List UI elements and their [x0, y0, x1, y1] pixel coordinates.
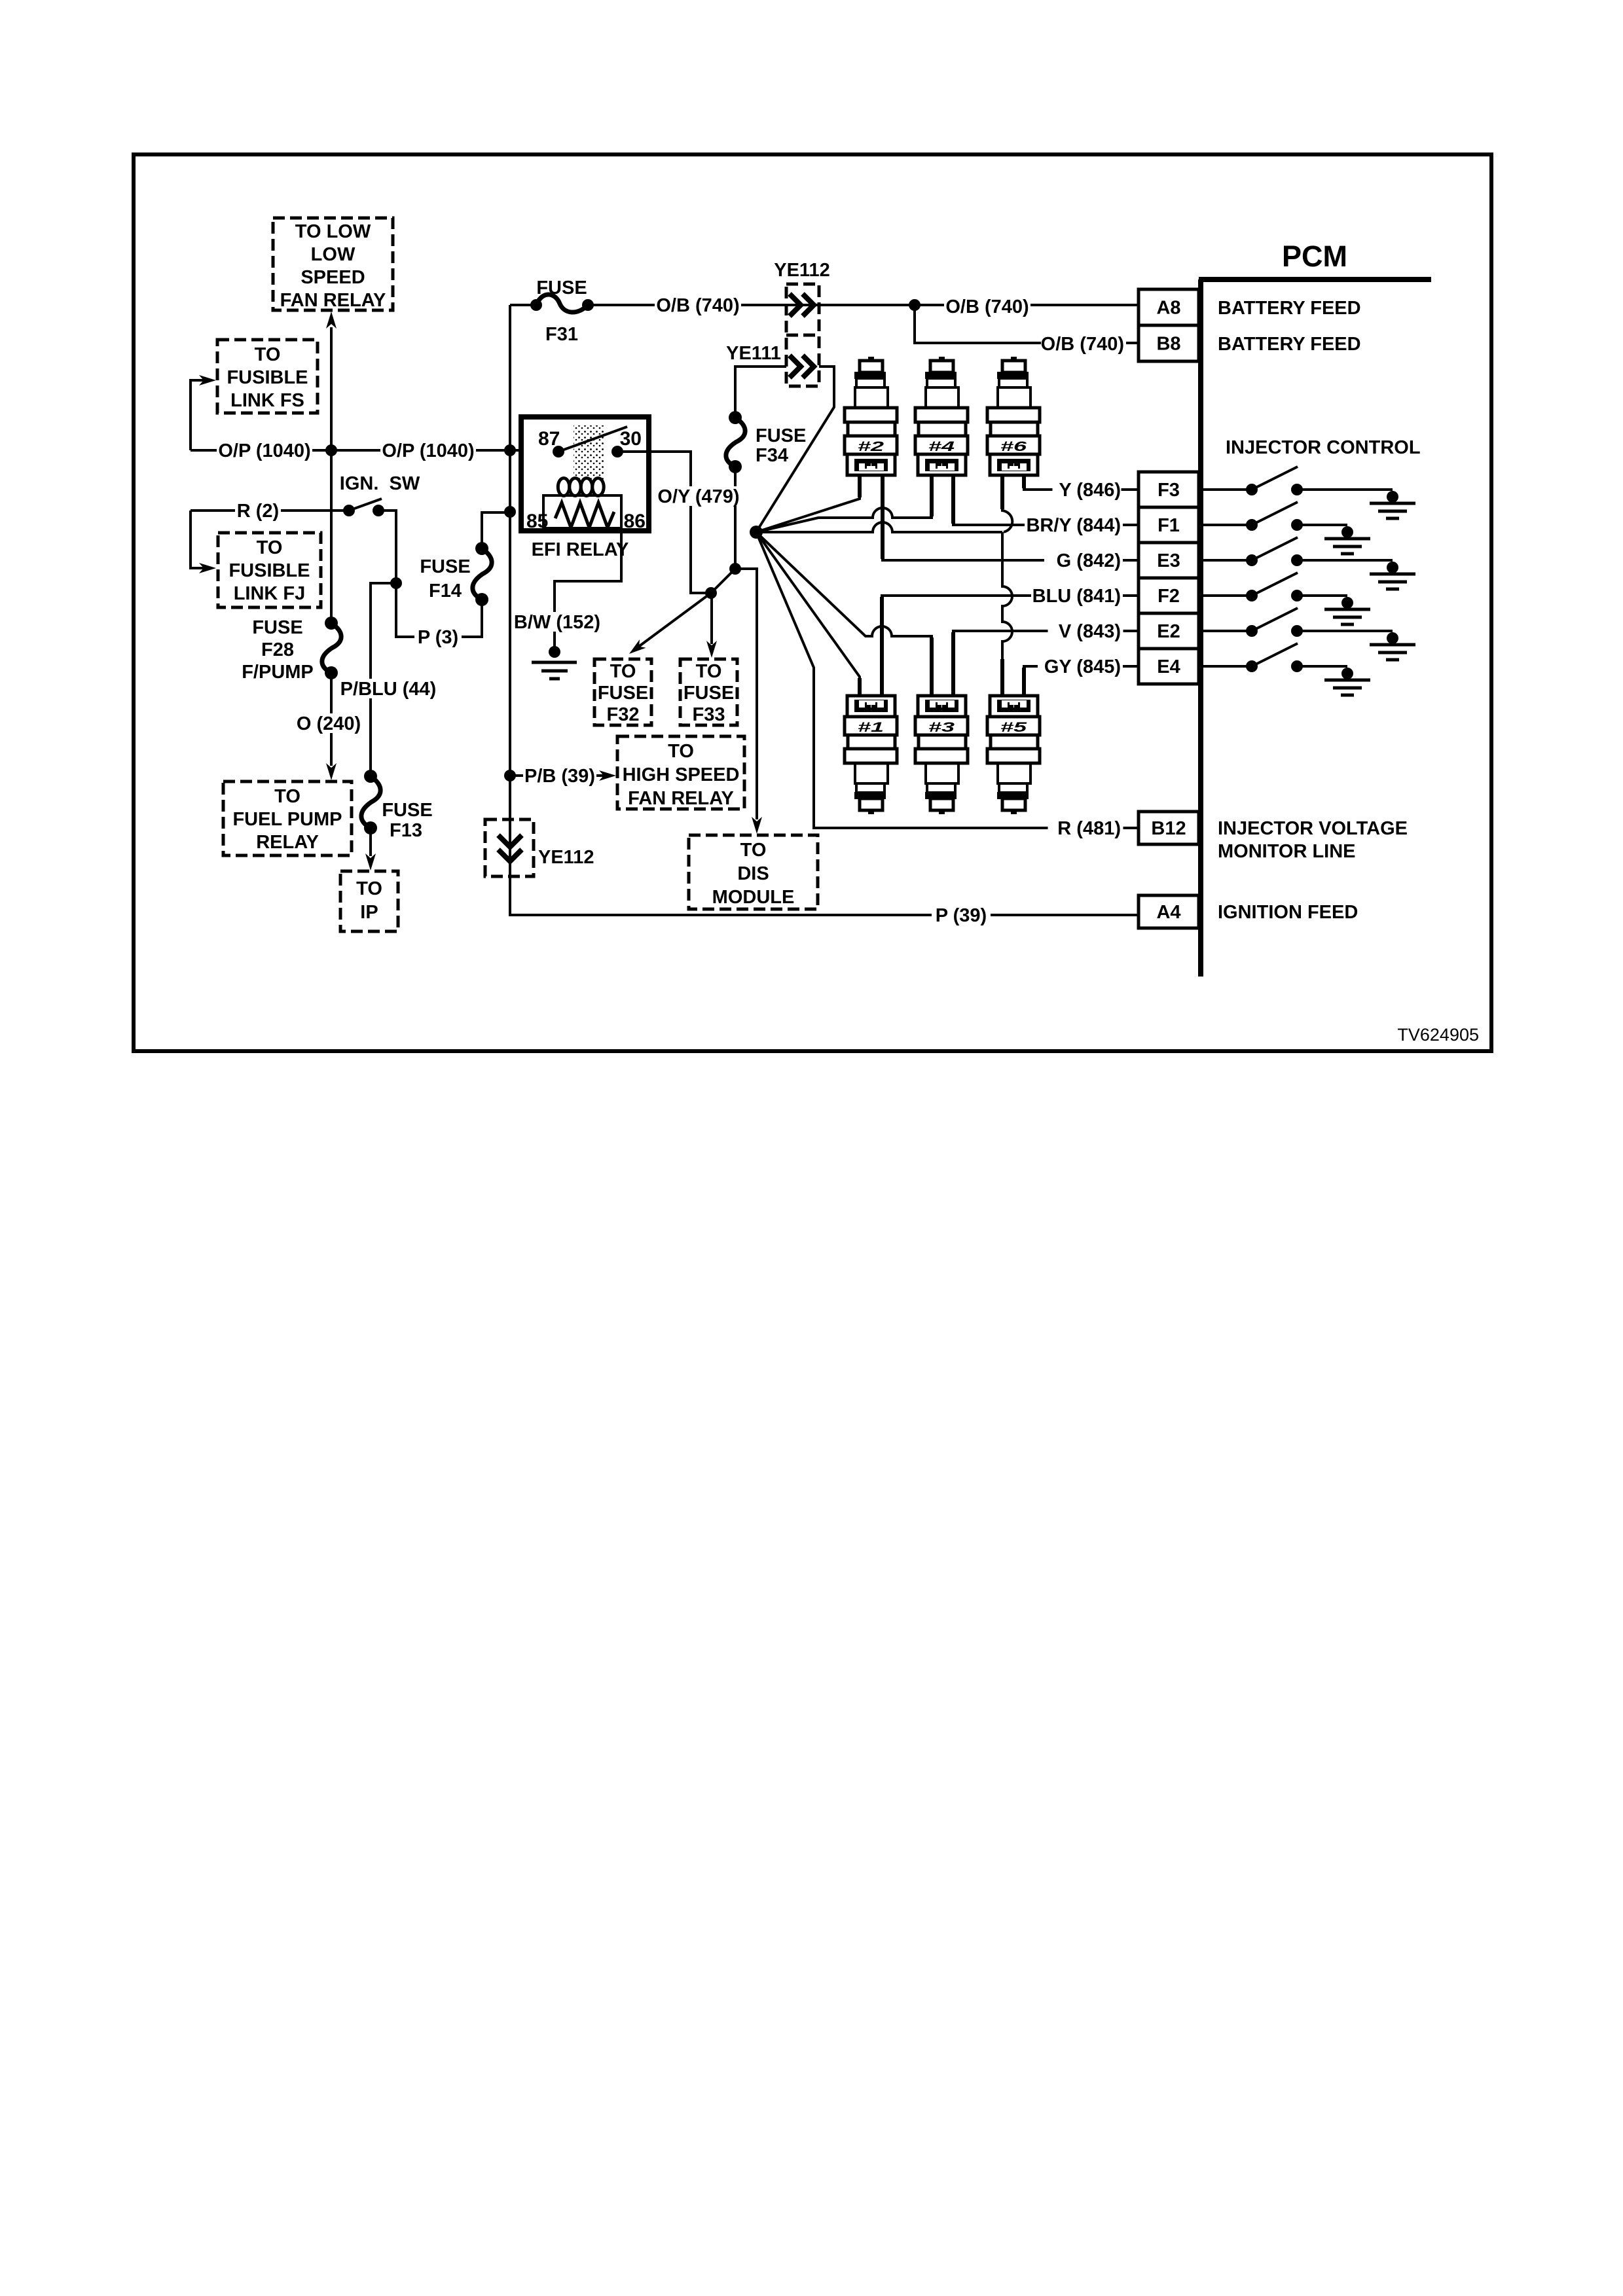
svg-text:87: 87 — [538, 428, 560, 450]
svg-text:F31: F31 — [545, 324, 578, 345]
svg-text:TO: TO — [610, 661, 636, 682]
svg-text:#2: #2 — [858, 439, 884, 454]
svg-text:#1: #1 — [858, 720, 884, 735]
svg-text:85: 85 — [526, 511, 548, 532]
svg-text:YE112: YE112 — [538, 847, 594, 868]
svg-text:B12: B12 — [1151, 818, 1186, 839]
svg-text:TO: TO — [696, 661, 722, 682]
svg-text:E2: E2 — [1157, 621, 1180, 642]
svg-text:MONITOR LINE: MONITOR LINE — [1218, 841, 1356, 862]
svg-text:LINK FS: LINK FS — [230, 390, 304, 411]
svg-text:HIGH SPEED: HIGH SPEED — [623, 764, 740, 785]
svg-text:FUSE: FUSE — [598, 683, 648, 704]
svg-text:FAN RELAY: FAN RELAY — [280, 290, 386, 311]
svg-text:IGN. SW: IGN. SW — [340, 473, 420, 494]
svg-text:G (842): G (842) — [1057, 550, 1121, 571]
svg-text:IP: IP — [360, 902, 378, 923]
svg-text:V (843): V (843) — [1059, 621, 1121, 642]
svg-text:FUSE: FUSE — [756, 425, 806, 446]
svg-text:E3: E3 — [1157, 550, 1180, 571]
svg-text:INJECTOR CONTROL: INJECTOR CONTROL — [1226, 437, 1421, 458]
svg-text:FUSE: FUSE — [536, 278, 587, 298]
svg-text:TO: TO — [668, 741, 694, 762]
svg-text:F33: F33 — [693, 704, 725, 725]
svg-text:SPEED: SPEED — [301, 267, 365, 288]
svg-text:FUSE: FUSE — [382, 800, 432, 821]
svg-text:YE111: YE111 — [726, 343, 781, 364]
svg-text:O/B (740): O/B (740) — [1041, 334, 1124, 355]
svg-text:R (481): R (481) — [1057, 818, 1121, 839]
svg-text:P/BLU (44): P/BLU (44) — [340, 679, 437, 700]
svg-text:YE112: YE112 — [774, 260, 830, 281]
svg-text:#5: #5 — [1000, 720, 1027, 735]
svg-text:FUSE: FUSE — [684, 683, 734, 704]
svg-text:P (3): P (3) — [418, 627, 458, 648]
svg-text:LINK FJ: LINK FJ — [234, 583, 306, 604]
svg-text:TO: TO — [740, 840, 767, 861]
svg-text:F14: F14 — [429, 581, 462, 601]
svg-text:F28: F28 — [261, 639, 294, 660]
svg-text:86: 86 — [624, 511, 646, 532]
svg-text:TO: TO — [255, 344, 281, 365]
svg-text:BR/Y (844): BR/Y (844) — [1026, 515, 1121, 536]
svg-text:R (2): R (2) — [237, 501, 279, 522]
svg-text:30: 30 — [620, 428, 642, 450]
svg-text:BATTERY FEED: BATTERY FEED — [1218, 334, 1361, 355]
svg-text:BLU (841): BLU (841) — [1032, 586, 1121, 607]
svg-text:A8: A8 — [1156, 298, 1180, 319]
svg-text:O/B (740): O/B (740) — [945, 296, 1029, 317]
svg-text:F3: F3 — [1158, 480, 1180, 501]
svg-text:F2: F2 — [1158, 586, 1180, 607]
svg-text:FUSIBLE: FUSIBLE — [228, 560, 310, 581]
svg-text:O/Y (479): O/Y (479) — [657, 486, 739, 507]
svg-text:Y (846): Y (846) — [1059, 480, 1121, 501]
svg-text:TO LOW: TO LOW — [295, 221, 371, 242]
svg-text:FUSIBLE: FUSIBLE — [227, 367, 308, 388]
svg-text:TO: TO — [257, 537, 283, 558]
svg-text:DIS: DIS — [737, 863, 769, 884]
svg-text:#3: #3 — [928, 720, 955, 735]
svg-text:BATTERY FEED: BATTERY FEED — [1218, 298, 1361, 319]
svg-text:P/B (39): P/B (39) — [524, 766, 595, 787]
svg-text:P (39): P (39) — [936, 905, 987, 926]
svg-text:TO: TO — [356, 878, 382, 899]
svg-text:FUSE: FUSE — [420, 556, 470, 577]
svg-text:F34: F34 — [756, 445, 788, 466]
svg-text:B8: B8 — [1156, 334, 1180, 355]
svg-text:PCM: PCM — [1282, 240, 1347, 273]
svg-text:A4: A4 — [1156, 902, 1180, 923]
svg-text:EFI RELAY: EFI RELAY — [532, 539, 629, 560]
svg-text:O (240): O (240) — [297, 713, 361, 734]
svg-text:GY (845): GY (845) — [1044, 656, 1121, 677]
svg-text:F32: F32 — [607, 704, 640, 725]
svg-text:F1: F1 — [1158, 515, 1180, 536]
svg-text:O/P (1040): O/P (1040) — [218, 440, 310, 461]
svg-text:F13: F13 — [390, 820, 422, 841]
svg-text:F/PUMP: F/PUMP — [242, 662, 314, 683]
svg-text:FAN RELAY: FAN RELAY — [628, 788, 734, 809]
svg-text:TO: TO — [274, 786, 301, 807]
svg-text:#4: #4 — [928, 439, 955, 454]
svg-text:O/P (1040): O/P (1040) — [382, 440, 474, 461]
svg-text:TV624905: TV624905 — [1397, 1025, 1479, 1045]
svg-text:B/W (152): B/W (152) — [514, 612, 600, 633]
svg-text:INJECTOR VOLTAGE: INJECTOR VOLTAGE — [1218, 818, 1408, 839]
svg-text:MODULE: MODULE — [712, 887, 795, 908]
svg-text:IGNITION FEED: IGNITION FEED — [1218, 902, 1358, 923]
svg-text:FUEL PUMP: FUEL PUMP — [232, 809, 342, 830]
svg-text:LOW: LOW — [311, 244, 356, 265]
svg-text:E4: E4 — [1157, 656, 1180, 677]
svg-text:RELAY: RELAY — [256, 832, 319, 853]
svg-text:#6: #6 — [1000, 439, 1027, 454]
svg-text:O/B (740): O/B (740) — [656, 295, 739, 316]
svg-text:FUSE: FUSE — [252, 617, 302, 638]
